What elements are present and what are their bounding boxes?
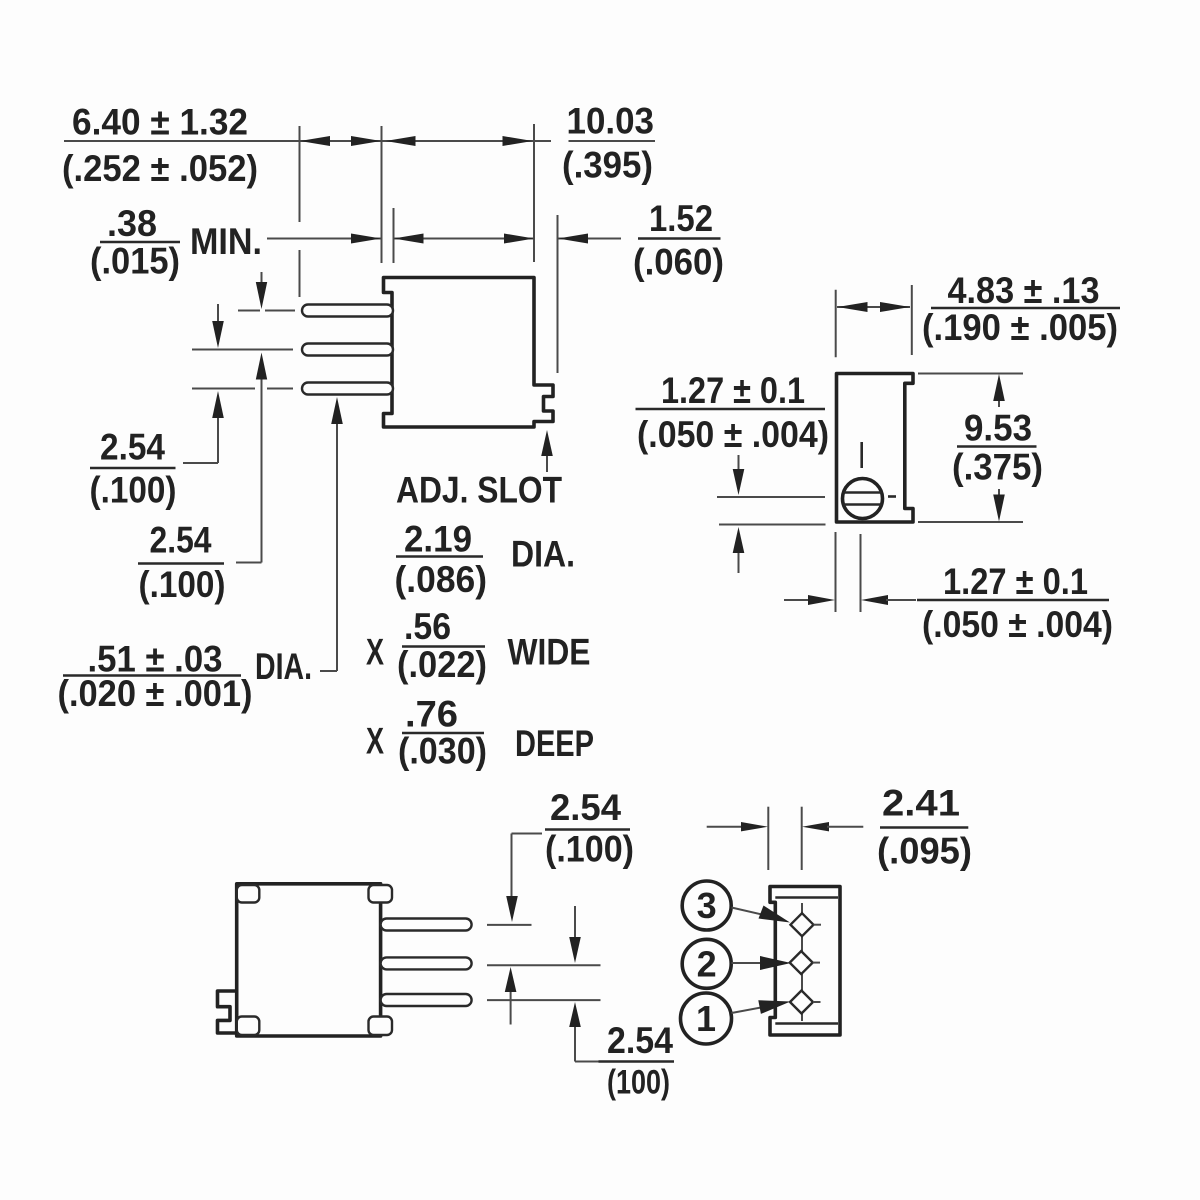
fraction bar 2.54 bottom view bottom [599,1060,675,1063]
pin 2 center dash line [192,349,293,351]
text X second [366,721,384,762]
corner post bottom-right [369,1017,393,1036]
extension line at x=299.5 [299,126,301,297]
svg-text:DIA.: DIA. [255,646,312,687]
pitch reference line 3 [487,999,601,1001]
trimmer body front view outline [384,278,554,428]
text 4.83 +/- .13 [948,270,1100,311]
text 2.54 second [150,520,212,561]
svg-text:(.030): (.030) [398,731,487,772]
9.53 bottom extension line [918,521,1023,523]
down arrow at pitch line2 [569,906,581,963]
text .76 [405,694,458,735]
pin 1 front view [302,305,393,317]
text (.020 +/- .001) [58,673,253,714]
text (.050 +/- .004) left [637,414,829,455]
svg-text:2.19: 2.19 [404,519,472,560]
text 1.52 [649,198,713,239]
vertical arrow above pin1 (2.54 dim) [256,272,267,309]
text (.015) [90,241,180,282]
9.53 bottom arrow [993,489,1005,522]
1.27 left down arrow [733,455,745,495]
fraction bar 2.54 bottom view top [545,828,630,831]
svg-text:(.100): (.100) [545,829,634,870]
svg-text:(.020 ± .001): (.020 ± .001) [58,673,253,714]
side pip bottom view [218,991,238,1033]
pitch reference line 2 [487,964,601,966]
fraction bar .56 [402,645,485,648]
bottom 1.27 extension lines [836,532,861,612]
svg-text:X: X [366,632,384,673]
svg-text:(.190 ± .005): (.190 ± .005) [922,307,1118,348]
svg-text:(.252 ± .052): (.252 ± .052) [62,148,258,189]
extension line at x=557.5 [557,215,559,373]
text (.252 +/- .052) [62,148,258,189]
svg-text:WIDE: WIDE [508,632,591,673]
text 10.03 [567,101,655,142]
diamond pin 3 [791,913,822,936]
pin 1 center dash line [238,310,295,312]
side view pin reference line lower [719,524,826,526]
up arrow below line3 leader to bottom 2.54 [569,1002,600,1062]
text (.086) [395,559,488,600]
svg-text:6.40 ± 1.32: 6.40 ± 1.32 [72,102,248,143]
fraction bar 2.54 first [90,467,176,470]
2.41 extension lines [768,807,801,870]
circled 3 [682,881,731,930]
text 2.54 first [100,427,165,468]
svg-text:1.27 ± 0.1: 1.27 ± 0.1 [661,370,805,411]
text 9.53 [964,408,1032,449]
text (.030) [398,731,487,772]
dimension row .38 MIN and 1.52 : line [267,238,621,240]
dimension row 6.40 and 10.03 : line [64,140,655,142]
svg-text:(.095): (.095) [877,831,972,872]
screw head circle [843,479,883,519]
circled 1 [681,993,732,1044]
pin 3 front view [302,383,393,395]
text 1.27 +/- 0.1 left [661,370,805,411]
svg-text:(.375): (.375) [952,447,1043,488]
fraction bar 1.52 [638,237,721,240]
svg-text:X: X [366,721,384,762]
leader 3 to diamond [732,906,791,923]
text 6.40 +/- 1.32 [72,102,248,143]
leader arrow below pin3 to 2.54 text [183,391,224,463]
corner post top-left [237,885,259,903]
pitch reference line 1 [487,924,532,926]
leader from 2.54 top text down arrow [506,834,542,923]
corner post top-right [369,885,393,903]
svg-text:2.41: 2.41 [882,783,960,824]
svg-text:2.54: 2.54 [550,787,621,828]
small dash right of screw [888,495,896,498]
svg-text:1.52: 1.52 [649,198,713,239]
corner post bottom-left [237,1017,259,1036]
svg-text:.38: .38 [107,203,157,244]
side view pin reference line upper [717,496,825,498]
svg-text:10.03: 10.03 [567,101,655,142]
extension line at x=534 [533,124,535,262]
vertical arrow above pin2 (2.54 dim) [212,304,224,348]
connector body outline [770,887,840,1036]
text DIA. second [511,534,575,575]
1.27 left up arrow [733,527,745,573]
svg-text:(.050 ± .004): (.050 ± .004) [637,414,829,455]
text MIN. [190,221,262,262]
text (.095) [877,831,972,872]
leader 2 to diamond [732,956,792,970]
svg-text:2.54: 2.54 [150,520,212,561]
4.83 dimension line with arrows [837,302,910,312]
svg-text:3: 3 [697,885,717,926]
connector inner cap line bottom [775,1022,838,1025]
svg-text:(.100): (.100) [90,470,177,511]
svg-text:ADJ. SLOT: ADJ. SLOT [396,470,562,511]
screw slot lines [844,493,882,505]
fraction bar 2.19 [396,555,483,558]
svg-text:1.27 ± 0.1: 1.27 ± 0.1 [943,561,1088,602]
text (.100) first [90,470,177,511]
text 1.27 +/- 0.1 bottom [943,561,1088,602]
extension line at x=381.5 [381,126,383,263]
fraction bar 2.41 [880,826,968,829]
fraction bar 2.54 second [138,562,224,565]
text 2.41 [882,783,960,824]
text (.022) [397,644,487,685]
svg-text:1: 1 [696,998,716,1039]
fraction bar .76 [402,732,484,735]
bottom 1.27 dimension line arrows [784,595,916,605]
text (.190 +/- .005) [922,307,1118,348]
2.41 dimension arrows [707,822,864,831]
svg-text:2: 2 [697,944,717,985]
svg-text:(.015): (.015) [90,241,180,282]
pin 2 front view [302,344,393,356]
9.53 top extension line [918,373,1023,375]
9.53 top arrow [993,374,1005,407]
svg-text:(.050 ± .004): (.050 ± .004) [922,604,1113,645]
text .51 +/- .03 [88,639,223,680]
svg-text:.76: .76 [405,694,458,735]
center tick above screw [860,442,863,468]
text (.050 +/- .004) bottom [922,604,1113,645]
svg-text:(100): (100) [607,1064,670,1102]
leader arrow adj slot [541,430,553,472]
svg-text:.56: .56 [404,606,451,647]
svg-text:9.53: 9.53 [964,408,1032,449]
text DIA. first [255,646,312,687]
extension line at x=393.5 [393,208,395,263]
text (.100) bottom view [545,829,634,870]
text (.395) [562,145,653,186]
text X first [366,632,384,673]
trimmer body bottom view outline [237,884,381,1036]
row2 arrowheads [351,234,588,244]
pin A bottom view [381,919,472,931]
connector inner cap line top [775,896,838,899]
svg-text:(.022): (.022) [397,644,487,685]
row1 arrowheads [300,136,533,146]
diamond pin 1 [790,991,821,1014]
text 2.54 bottom view bottom [607,1020,673,1061]
fraction bar 4.83 [931,307,1120,310]
svg-text:(.395): (.395) [562,145,653,186]
text .56 [404,606,451,647]
text (100) [607,1064,670,1102]
fraction bar 1.27 left [636,408,826,411]
circled 2 [682,939,731,988]
fraction bar 1.27 bottom [917,599,1109,602]
up arrow below line2 [505,967,517,1025]
svg-text:(.060): (.060) [633,242,724,283]
diamond pins center line [801,903,803,1021]
leader 1 to diamond [732,1000,791,1014]
leader arrow pin3 dia (.51) [320,397,343,671]
svg-text:DEEP: DEEP [515,723,594,764]
pin B bottom view [381,957,472,969]
pin 3 center dash line [192,388,293,390]
text 2.19 [404,519,472,560]
svg-text:DIA.: DIA. [511,534,575,575]
svg-text:2.54: 2.54 [607,1020,673,1061]
svg-text:MIN.: MIN. [190,221,262,262]
diamond pin 2 [790,951,820,974]
text (.060) [633,242,724,283]
fraction bar .51 [63,674,241,677]
text ADJ. SLOT [396,470,562,511]
svg-text:4.83 ± .13: 4.83 ± .13 [948,270,1100,311]
text (.375) [952,447,1043,488]
text .38 [107,203,157,244]
text (.100) second [139,564,226,605]
text 2.54 bottom view top [550,787,621,828]
leader arrow below pin2 to 2.54 text [236,353,267,563]
text WIDE [508,632,591,673]
fraction bar 9.53 [957,445,1037,448]
4.83 dimension extension lines [836,285,912,357]
text DEEP [515,723,594,764]
pin C bottom view [381,994,472,1006]
svg-text:(.086): (.086) [395,559,488,600]
svg-text:2.54: 2.54 [100,427,165,468]
svg-text:(.100): (.100) [139,564,226,605]
trimmer body side view outline [837,374,914,523]
fraction bar .38 [100,241,180,244]
